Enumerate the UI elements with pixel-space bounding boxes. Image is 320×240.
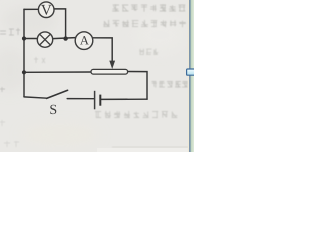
rheostat R slider arrow	[109, 61, 115, 69]
wire: left rail	[23, 9, 25, 96]
wire: bottom-left corner to switch pivot	[24, 97, 47, 98]
wire: top-left corner to voltmeter	[24, 8, 39, 10]
wire: lamp to ammeter	[53, 38, 76, 39]
wire: lamp row left	[24, 38, 38, 40]
faint right mid text	[152, 81, 188, 88]
switch S blade	[47, 90, 68, 98]
paper background	[0, 0, 194, 152]
faint left margin marks	[0, 28, 45, 147]
green margin band	[191, 0, 194, 152]
cream sliver	[188, 0, 190, 152]
faint bottom text	[95, 111, 177, 118]
wire: box right to corner, down right rail	[127, 72, 147, 100]
blue resize handle	[187, 69, 195, 75]
node: junction dot left rail / lamp row	[22, 36, 26, 40]
bottom faint shadow line	[112, 146, 189, 147]
node: junction dot left rail / rheostat row	[22, 70, 26, 74]
node: junction dot voltmeter branch / lamp row	[63, 36, 67, 40]
rheostat R resistive track box	[91, 69, 128, 74]
switch label S	[50, 105, 56, 114]
ammeter A circle	[75, 32, 93, 50]
wire: ammeter right to corner, down to rheostat arrow	[93, 38, 113, 62]
faint (4分) mark	[139, 49, 158, 55]
wire: voltmeter right to corner and down to node	[54, 9, 66, 39]
faint bleed-through text top line 2	[103, 20, 186, 27]
lamp L1 X cross	[40, 34, 51, 45]
battery negative short thick plate	[99, 95, 101, 106]
lamp L1 circle	[37, 32, 52, 47]
wire: battery left plate to switch contact	[67, 98, 94, 100]
teal page border line	[189, 0, 190, 152]
voltmeter V circle	[38, 2, 54, 18]
faint bleed-through text top line 1	[112, 4, 185, 12]
wire: rheostat row from rail to box	[24, 71, 92, 73]
ammeter label A	[80, 36, 89, 44]
battery positive long plate	[94, 91, 96, 110]
voltmeter label V	[41, 5, 51, 15]
wire: bottom right to battery	[101, 98, 147, 100]
